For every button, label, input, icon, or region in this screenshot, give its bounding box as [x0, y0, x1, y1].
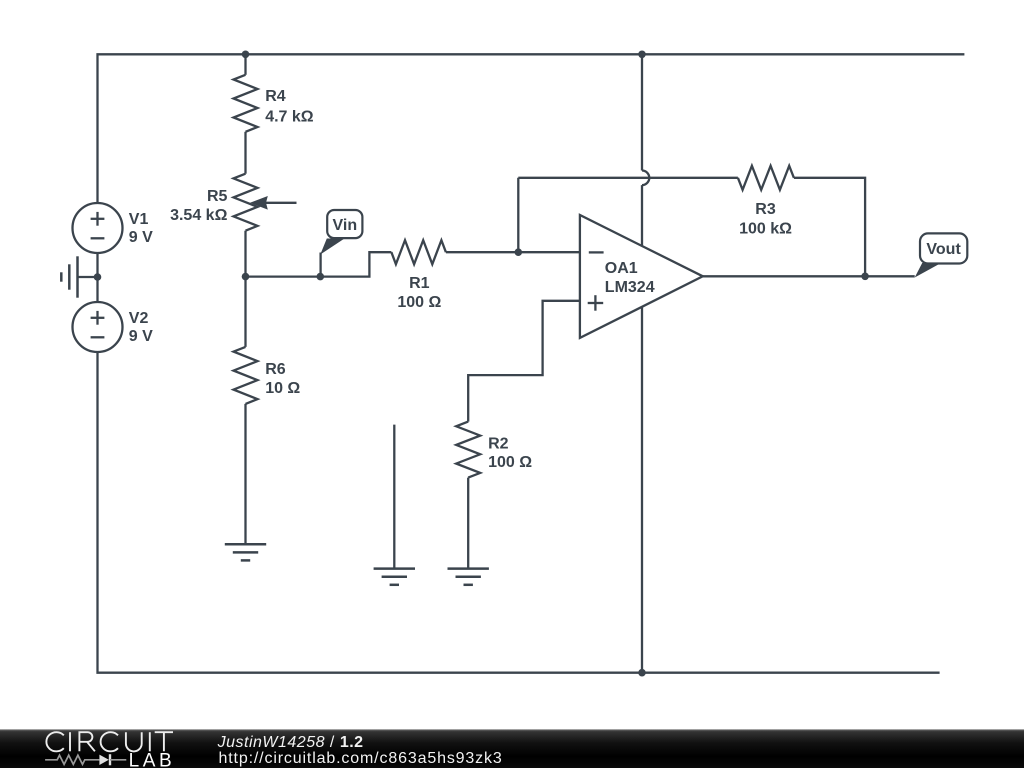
svg-text:100 Ω: 100 Ω: [397, 294, 441, 311]
svg-text:R2: R2: [488, 435, 509, 452]
wire R4 to R5: [244, 132, 246, 174]
voltage source V1: [73, 203, 123, 253]
svg-text:R4: R4: [265, 88, 286, 105]
flag Vout box: [920, 233, 967, 263]
flag Vin box: [327, 210, 362, 238]
wire V1 top lead / V1-V2 stem: [96, 203, 98, 302]
svg-text:Vout: Vout: [926, 241, 961, 258]
wire feedback vertical: [517, 178, 519, 252]
svg-text:R6: R6: [265, 361, 286, 378]
ground left: [78, 276, 98, 278]
svg-text:4.7 kΩ: 4.7 kΩ: [265, 109, 314, 126]
svg-text:9 V: 9 V: [129, 229, 153, 246]
svg-text:OA1: OA1: [605, 260, 638, 277]
wire vertical x=642 lower: [641, 185, 643, 673]
junction feedback node: [515, 248, 523, 256]
svg-text:100 Ω: 100 Ω: [488, 454, 532, 471]
wire positive rail vertical x=642: [641, 54, 643, 170]
wire R5 bottom lead: [244, 231, 246, 277]
resistor R1: [391, 240, 446, 264]
svg-text:http://circuitlab.com/c863a5hs: http://circuitlab.com/c863a5hs93zk3: [219, 750, 503, 767]
op-amp minus: [589, 251, 604, 253]
svg-text:R3: R3: [755, 201, 776, 218]
junction top left: [242, 51, 250, 59]
svg-text:R5: R5: [207, 188, 228, 205]
ground R2: [448, 567, 489, 570]
flag Vin tail: [320, 239, 344, 255]
svg-text:10 Ω: 10 Ω: [265, 380, 300, 397]
svg-text:Vin: Vin: [332, 217, 357, 234]
svg-text:V2: V2: [129, 310, 149, 327]
resistor R2: [456, 422, 480, 478]
wire feedback horizontal: [518, 177, 738, 179]
junction V1 V2: [94, 273, 102, 281]
logo diode: [99, 755, 108, 765]
svg-text:9 V: 9 V: [129, 328, 153, 345]
logo squiggle resistor: [45, 755, 99, 764]
op-amp OA1: [580, 215, 703, 338]
ground floating: [393, 425, 395, 569]
ground R6: [225, 543, 266, 546]
wire node A to R1 left lead: [320, 252, 391, 276]
wire R3 to output: [794, 178, 865, 276]
wire node A to R6: [244, 277, 246, 347]
svg-text:JustinW14258 / 1.2: JustinW14258 / 1.2: [217, 734, 364, 751]
svg-text:100 kΩ: 100 kΩ: [739, 221, 792, 238]
wire R2 to ground: [467, 478, 469, 569]
svg-text:3.54 kΩ: 3.54 kΩ: [170, 207, 227, 224]
junction Vin node: [317, 273, 325, 281]
wire Vin stem: [319, 253, 321, 277]
junction output: [861, 273, 869, 281]
footer bar: [0, 729, 1024, 768]
wire R1 to op-amp: [446, 251, 580, 253]
wire hop over feedback: [642, 171, 649, 186]
wire bottom rail: [98, 352, 940, 673]
op-amp plus: [588, 302, 604, 304]
resistor R3: [738, 166, 794, 190]
wire R6 to ground: [244, 404, 246, 544]
junction top x642: [638, 51, 646, 59]
svg-text:V1: V1: [129, 211, 149, 228]
wire to Vin node: [246, 275, 321, 277]
junction bottom x642: [638, 669, 646, 677]
resistor R6: [234, 347, 258, 404]
flag Vout tail: [915, 263, 941, 278]
wire output: [703, 275, 915, 277]
R5 wiper arrow: [265, 202, 297, 204]
svg-text:R1: R1: [409, 275, 430, 292]
svg-text:LM324: LM324: [605, 279, 655, 296]
voltage source V2: [73, 302, 123, 352]
wire R4 top lead: [244, 54, 246, 75]
svg-text:LAB: LAB: [129, 750, 176, 768]
logo CIRCUIT: [46, 732, 173, 751]
potentiometer R5: [234, 174, 258, 231]
junction R5 R6 node: [242, 273, 250, 281]
wire top rail: [98, 54, 965, 203]
wire non-inverting input: [468, 301, 580, 422]
resistor R4: [234, 75, 258, 132]
